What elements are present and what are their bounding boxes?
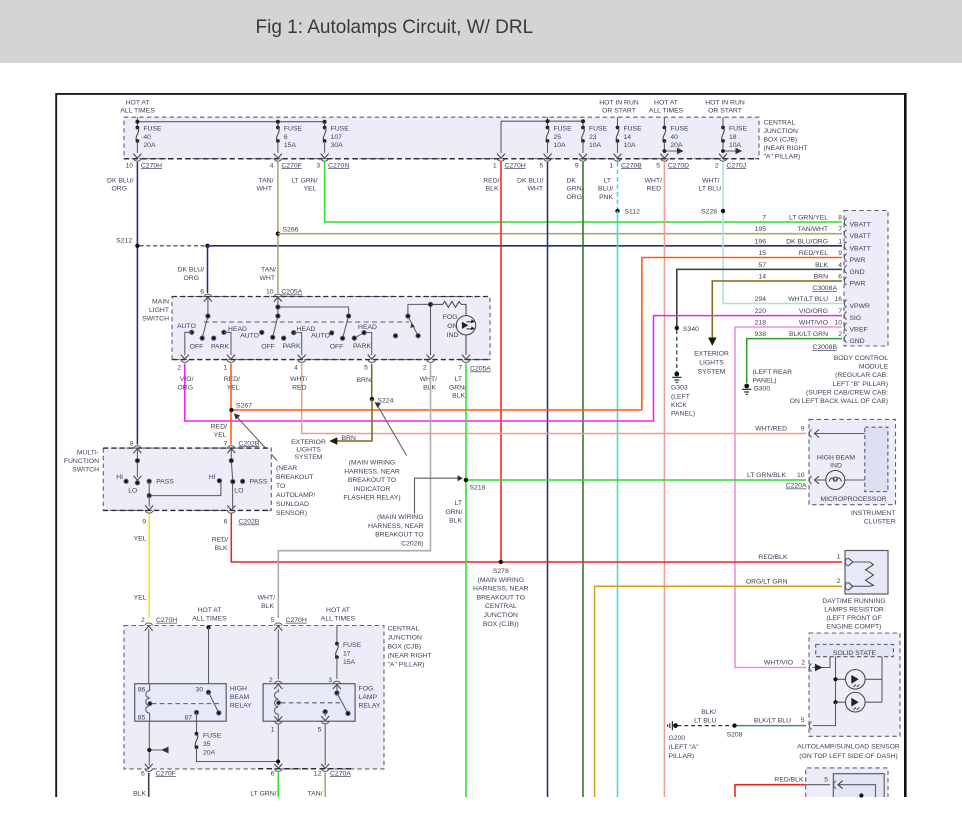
svg-text:FUSE: FUSE (143, 126, 162, 133)
label INSTRUMENT CLUSTER (851, 510, 896, 526)
svg-text:LO: LO (234, 487, 243, 494)
wire LT GRN/YEL C270N-3 to BCM VBATT 8 (325, 162, 842, 222)
connector pin 9 (575, 159, 587, 170)
svg-text:VBATT: VBATT (850, 222, 871, 229)
MLS pin 7 C205A (bottom) (458, 355, 491, 373)
pointer flasher relay note to S224 (375, 402, 407, 456)
relay K2 mechanical link (281, 702, 340, 704)
connector row C270 dark dashes (124, 158, 759, 160)
label LT BLU/PNK (598, 177, 614, 201)
svg-text:VREF: VREF (850, 327, 868, 334)
svg-text:G200: G200 (669, 735, 686, 742)
label RED/BLK (MFS pin6) (212, 537, 228, 552)
wire WHT/VIO BCM VREF 10 to sunload sensor pin 2 (735, 327, 842, 668)
svg-text:SUNLOAD: SUNLOAD (276, 501, 309, 508)
MFS pin 8 (top) (130, 440, 142, 453)
svg-text:7: 7 (838, 308, 842, 315)
svg-text:C270H: C270H (505, 162, 526, 169)
MLS section A contact labels (177, 323, 247, 351)
solid state inner box (816, 644, 894, 657)
svg-text:C270H: C270H (286, 617, 307, 624)
label DK BLU/ORG (107, 177, 134, 192)
svg-text:LT GRN/: LT GRN/ (250, 790, 276, 797)
fuse 107 30A (321, 126, 350, 159)
svg-text:VIO/: VIO/ (180, 376, 194, 383)
svg-text:BLK: BLK (486, 186, 499, 193)
svg-text:BLK/LT GRN: BLK/LT GRN (789, 331, 828, 338)
svg-text:10: 10 (797, 472, 805, 479)
fuse 25 10A (544, 126, 573, 159)
svg-text:6: 6 (271, 770, 275, 777)
svg-text:OFF: OFF (330, 344, 344, 351)
svg-text:10A: 10A (624, 142, 637, 149)
svg-text:FOG: FOG (359, 686, 374, 693)
svg-text:LT: LT (604, 177, 611, 184)
svg-text:PARK: PARK (282, 343, 300, 350)
wire internal pin2 to relay coil 86 (148, 630, 150, 684)
svg-text:30A: 30A (331, 142, 344, 149)
svg-text:C205A: C205A (281, 289, 302, 296)
arrow to exterior lights system (708, 338, 717, 346)
wire internal pin5 to fog relay pin 2 (277, 630, 279, 680)
svg-text:18: 18 (729, 134, 737, 141)
svg-text:WHT: WHT (528, 186, 543, 193)
splice S224 (370, 397, 394, 405)
microprocessor inner box (865, 427, 888, 492)
phototransistor D1 (833, 670, 882, 690)
svg-text:RED: RED (292, 384, 306, 391)
svg-text:ORG: ORG (178, 384, 193, 391)
relay K1 coil (146, 684, 152, 722)
CJB bottom pin 6 C270F (141, 764, 176, 777)
wire 87 to fuse 35 (196, 712, 198, 733)
relay K2 coil (275, 689, 281, 721)
svg-text:BLK/LT BLU: BLK/LT BLU (754, 718, 791, 725)
BCM pin cups (844, 218, 846, 342)
svg-text:CENTRAL: CENTRAL (764, 120, 796, 127)
MLS section B contact labels (240, 326, 315, 351)
svg-text:5: 5 (824, 777, 828, 784)
svg-text:2: 2 (837, 578, 841, 585)
sensor input arrow and riser (813, 657, 831, 672)
svg-text:PASS: PASS (250, 479, 268, 486)
wire RED/BLK C270H-1 down to S278 (500, 162, 502, 562)
multi-function switch box (64, 448, 271, 510)
sensor pin cup 5 (809, 722, 811, 730)
wire fuse14 feed stub (617, 117, 619, 127)
svg-text:ALL TIMES: ALL TIMES (192, 616, 227, 623)
bottom-right module box (clipped) (806, 768, 888, 797)
svg-text:PNK: PNK (599, 194, 613, 201)
svg-text:HOT AT: HOT AT (654, 100, 678, 107)
wire TAN/WHT C270F-4 to S266 to MLS pin 10 (277, 162, 279, 293)
svg-text:PWR: PWR (850, 257, 866, 264)
fuse 18 10A with branch arrow (719, 126, 748, 159)
svg-text:YEL: YEL (214, 432, 227, 439)
svg-text:25: 25 (554, 134, 562, 141)
svg-text:1: 1 (493, 162, 497, 169)
svg-text:2: 2 (141, 617, 145, 624)
svg-text:JUNCTION: JUNCTION (764, 128, 798, 135)
svg-text:AUTOLAMP/: AUTOLAMP/ (276, 492, 315, 499)
svg-text:FUNCTION: FUNCTION (64, 458, 99, 465)
splice S340 (675, 326, 699, 333)
svg-text:20A: 20A (203, 750, 216, 757)
svg-text:WHT/: WHT/ (645, 177, 662, 184)
BCM pin names (850, 222, 871, 346)
wire YEL MFS pin9 to CJB C270H-2 (148, 514, 150, 618)
svg-text:HI: HI (116, 474, 123, 481)
label LT GRN/BLK 10 C220A (747, 472, 807, 490)
MLS pin 4 (bottom) (294, 355, 306, 372)
svg-text:RED/: RED/ (212, 537, 228, 544)
central junction box CJB (lower) (124, 626, 432, 769)
svg-text:FLASHER RELAY): FLASHER RELAY) (343, 495, 400, 502)
svg-text:FUSE: FUSE (343, 642, 362, 649)
label ORG/LT GRN 2 (746, 578, 841, 586)
svg-text:ALL TIMES: ALL TIMES (321, 616, 356, 623)
svg-text:FUSE: FUSE (589, 126, 608, 133)
label LT GRN/BLK (pin7) (449, 376, 466, 400)
svg-text:BOX (CJB): BOX (CJB) (388, 644, 422, 651)
svg-text:15A: 15A (284, 142, 297, 149)
photodiode bus left (835, 657, 837, 703)
label WHT/LT BLU (699, 177, 722, 192)
wire RED/YEL S267 branch to BCM riser (234, 409, 642, 411)
label LEFT REAR PANEL (753, 369, 793, 385)
svg-text:DK BLU/ORG: DK BLU/ORG (786, 238, 828, 245)
svg-text:S278: S278 (493, 568, 509, 575)
svg-text:HARNESS, NEAR: HARNESS, NEAR (344, 468, 400, 475)
svg-text:(MAIN WIRING: (MAIN WIRING (478, 577, 524, 584)
wire DK GRN/ORG C270B-9 down to bottom (582, 162, 584, 797)
svg-text:BLK: BLK (261, 603, 274, 610)
svg-text:5: 5 (656, 162, 660, 169)
label RED/YEL (pin1) (224, 376, 240, 391)
svg-text:MULTI-: MULTI- (77, 450, 99, 457)
label BLK/LT BLU (dashed segment) (694, 709, 717, 724)
svg-text:HOT IN RUN: HOT IN RUN (599, 100, 639, 107)
bus wire hot feed left (135, 117, 326, 127)
svg-text:S212: S212 (116, 238, 132, 245)
svg-text:HIGH BEAM: HIGH BEAM (817, 454, 855, 461)
svg-text:BREAKOUT TO: BREAKOUT TO (477, 594, 525, 601)
svg-text:2: 2 (838, 331, 842, 338)
svg-text:JUNCTION: JUNCTION (388, 635, 422, 642)
svg-text:5: 5 (364, 365, 368, 372)
splice S212 (116, 238, 139, 249)
svg-text:PILLAR): PILLAR) (669, 753, 695, 760)
svg-text:FUSE: FUSE (624, 126, 643, 133)
svg-text:2: 2 (715, 162, 719, 169)
svg-text:FUSE: FUSE (729, 126, 748, 133)
svg-text:HOT AT: HOT AT (126, 100, 150, 107)
MLS pin 2 (bottom) (177, 355, 189, 372)
svg-text:5: 5 (271, 617, 275, 624)
svg-text:2: 2 (801, 659, 805, 666)
MFS pin 9 (bottom) (142, 496, 153, 526)
MLS switch section B (260, 298, 349, 355)
svg-text:S267: S267 (236, 403, 252, 410)
svg-text:YEL: YEL (227, 384, 240, 391)
svg-text:7: 7 (838, 226, 842, 233)
wire DK BLU/ORG horizontal to BCM VBATT 1 (208, 245, 843, 247)
svg-text:PANEL): PANEL) (753, 378, 777, 385)
svg-text:LO: LO (128, 487, 137, 494)
svg-text:2: 2 (177, 365, 181, 372)
svg-text:BLK/: BLK/ (701, 709, 716, 716)
svg-text:C220A: C220A (786, 483, 807, 490)
svg-text:WHT/LT BLU: WHT/LT BLU (788, 296, 828, 303)
svg-text:ALL TIMES: ALL TIMES (649, 108, 684, 115)
MFS dimmer section 2 (217, 450, 244, 508)
svg-text:DK: DK (567, 177, 577, 184)
wire fuse18 feed stub (722, 117, 724, 127)
svg-text:C270J: C270J (727, 162, 747, 169)
wire WHT/LT BLU C270J-2 to S228 to BCM VPWR 16 (723, 162, 842, 304)
svg-text:HOT AT: HOT AT (198, 607, 222, 614)
connector pin 1 C270B (609, 159, 642, 170)
wire dashed splice link S212 (140, 245, 208, 247)
svg-text:ORG: ORG (112, 186, 127, 193)
svg-text:HI: HI (209, 474, 216, 481)
wire LT BLU/PNK C270B-1 dashed to S112 (617, 162, 619, 209)
svg-text:8: 8 (130, 440, 134, 447)
svg-text:Fig 1: Autolamps Circuit, W/ D: Fig 1: Autolamps Circuit, W/ DRL (256, 17, 534, 38)
svg-text:(NEAR RIGHT: (NEAR RIGHT (764, 145, 808, 152)
svg-text:6: 6 (838, 274, 842, 281)
label VIO/ORG (178, 376, 194, 391)
MLS switch section A (185, 298, 231, 355)
connector C202B dark edge (MFS top) (103, 447, 271, 449)
svg-text:ORG/LT GRN: ORG/LT GRN (746, 578, 788, 585)
svg-text:5: 5 (801, 717, 805, 724)
ground G200 (668, 721, 699, 760)
svg-text:"A" PILLAR): "A" PILLAR) (764, 154, 801, 161)
svg-text:6: 6 (141, 770, 145, 777)
svg-text:C270F: C270F (156, 770, 176, 777)
svg-text:16: 16 (834, 296, 842, 303)
CJB bottom pin 12 C270A (314, 769, 352, 777)
fuse 35 20A (195, 732, 279, 762)
CJB bottom pin 6 (271, 769, 283, 777)
splice S266 (276, 227, 299, 236)
relay K1 contact 30-87 (194, 690, 221, 715)
svg-text:1: 1 (609, 162, 613, 169)
splice S278 (493, 560, 509, 575)
svg-text:C270H: C270H (156, 617, 177, 624)
daytime running lamps resistor R (box) (845, 551, 888, 595)
wire DK BLU/WHT C270H-5 down to bottom (547, 162, 549, 797)
label AUTOLAMP/SUNLOAD SENSOR (797, 744, 900, 761)
svg-text:(LEFT: (LEFT (671, 394, 690, 401)
svg-text:SWITCH: SWITCH (142, 316, 169, 323)
svg-text:ALL TIMES: ALL TIMES (120, 108, 155, 115)
svg-text:(ON TOP LEFT SIDE OF DASH): (ON TOP LEFT SIDE OF DASH) (799, 753, 897, 760)
svg-text:"A" PILLAR): "A" PILLAR) (388, 662, 425, 669)
label HOT AT ALL TIMES (fuse 40b) (649, 100, 684, 115)
svg-text:LT GRN/YEL: LT GRN/YEL (789, 215, 828, 222)
svg-text:BLK: BLK (215, 545, 228, 552)
svg-text:85: 85 (138, 715, 146, 722)
svg-text:DK BLU/: DK BLU/ (107, 177, 134, 184)
svg-text:HIGH: HIGH (230, 686, 247, 693)
svg-text:10A: 10A (554, 142, 567, 149)
svg-text:86: 86 (138, 686, 146, 693)
wire BRN S224 down and left to arrow (337, 399, 373, 441)
svg-text:3: 3 (328, 677, 332, 684)
svg-text:FOG: FOG (443, 314, 458, 321)
wire TAN below C270A-12 (308, 773, 326, 798)
svg-text:TAN/: TAN/ (308, 790, 323, 797)
MLS pin 10 C205A (top) (266, 289, 303, 302)
svg-text:1: 1 (838, 238, 842, 245)
phototransistor D2 (833, 692, 882, 712)
wire WHT/RED MLS pin4 to cluster pin 9 (302, 364, 806, 434)
connector pin 5 (539, 159, 551, 170)
fog on ind resistor (431, 302, 467, 316)
svg-text:FUSE: FUSE (203, 733, 222, 740)
wire BLK/LT GRN BCM GND 2 to G300 (747, 339, 842, 383)
splice S218 (464, 478, 486, 492)
svg-text:BLK: BLK (449, 518, 462, 525)
fuse 6 15A (274, 126, 303, 159)
svg-text:RED/: RED/ (224, 376, 240, 383)
sensor pin cup 2 (809, 664, 811, 672)
svg-text:LIGHT: LIGHT (149, 307, 169, 314)
svg-text:(NEAR RIGHT: (NEAR RIGHT (388, 653, 432, 660)
label RED/YEL (above MFS pin7) (211, 424, 227, 439)
fuse 17 15A (335, 626, 362, 680)
fuse 14 10A (614, 126, 643, 159)
svg-text:SOLID STATE: SOLID STATE (833, 650, 877, 657)
label DK GRN/ORG (567, 177, 584, 201)
svg-text:GRN/: GRN/ (567, 186, 584, 193)
svg-text:LT BLU: LT BLU (699, 186, 722, 193)
svg-text:6: 6 (224, 519, 228, 526)
svg-text:PASS: PASS (156, 479, 174, 486)
svg-text:C3008A: C3008A (812, 285, 837, 292)
MFS dimmer section 1 (124, 450, 151, 485)
relay K2 contact 3-5 (321, 684, 350, 721)
label HOT IN RUN OR START (fuse 14) (599, 100, 639, 115)
connector pin 5 C270D (656, 159, 689, 170)
svg-text:107: 107 (331, 134, 343, 141)
svg-text:EXTERIOR: EXTERIOR (291, 439, 326, 446)
svg-text:OFF: OFF (261, 344, 275, 351)
label WHT/BLK (pin2 fog) (420, 376, 437, 391)
svg-text:FUSE: FUSE (554, 126, 573, 133)
wire RED/YEL MLS pin1 to S267 to MFS pin7 (230, 364, 232, 445)
svg-text:BEAM: BEAM (230, 694, 250, 701)
CJB pin 5 C270H (271, 617, 307, 631)
wire BLK/LT BLU S208 to sensor (737, 725, 806, 727)
svg-text:BLK: BLK (452, 393, 465, 400)
svg-text:PWR: PWR (850, 281, 866, 288)
svg-text:2: 2 (423, 365, 427, 372)
wire LT BLU/PNK solid down to bottom (617, 211, 619, 797)
wire pin1 C270H feed arrow (497, 154, 505, 159)
svg-text:CLUSTER: CLUSTER (864, 519, 896, 526)
svg-text:INSTRUMENT: INSTRUMENT (851, 510, 896, 517)
wire BLK below C270F-6 (133, 773, 149, 798)
svg-text:C205A: C205A (470, 366, 491, 373)
wire RED/BLK MFS pin6 to S278 to DRL resistor pin 1 (231, 513, 842, 562)
svg-text:4: 4 (270, 162, 274, 169)
svg-text:WHT/: WHT/ (258, 595, 275, 602)
splice S267 (229, 403, 252, 413)
svg-text:S266: S266 (283, 227, 299, 234)
fuse 40 20A (left) (133, 126, 162, 159)
svg-text:WHT/VIO: WHT/VIO (764, 659, 793, 666)
fuse 40 20A (right) with branch arrow (660, 126, 689, 159)
ground G303 (671, 372, 695, 418)
svg-text:OFF: OFF (190, 344, 204, 351)
fog lamp relay K2 (263, 677, 355, 721)
svg-text:C202B: C202B (239, 440, 260, 447)
svg-text:(LEFT "A": (LEFT "A" (669, 744, 700, 751)
label LT GRN/BLK (below S218) (446, 500, 463, 525)
wire 85 to C270F-6 with stub arrow (147, 721, 168, 765)
svg-text:VPWR: VPWR (850, 303, 870, 310)
svg-text:20A: 20A (670, 142, 683, 149)
label WHT/RED (pin4) (290, 376, 307, 391)
svg-text:87: 87 (184, 715, 192, 722)
svg-text:294: 294 (755, 296, 767, 303)
splice S208 (727, 723, 743, 738)
svg-text:C270F: C270F (281, 162, 301, 169)
svg-text:LEFT "B" PILLAR): LEFT "B" PILLAR) (833, 381, 888, 388)
svg-text:KICK: KICK (671, 402, 687, 409)
connector pin 4 C270F (270, 159, 302, 170)
wire WHT/RED C270D-5 down to bottom (663, 162, 665, 797)
svg-text:10: 10 (266, 289, 274, 296)
svg-text:DK BLU/: DK BLU/ (178, 267, 205, 274)
svg-text:RED/YEL: RED/YEL (799, 250, 828, 257)
svg-text:SENSOR): SENSOR) (276, 510, 307, 517)
svg-text:9: 9 (838, 250, 842, 257)
wire BRN BCM PWR 6 to exterior lights arrow (712, 281, 842, 339)
svg-text:OR START: OR START (602, 108, 636, 115)
svg-text:10: 10 (125, 162, 133, 169)
wire BLK BCM GND 4 to S340 (677, 269, 842, 327)
MLS pin 5 (bottom) (364, 355, 376, 372)
svg-text:C3008B: C3008B (812, 344, 837, 351)
svg-text:195: 195 (755, 226, 767, 233)
cluster pin cup 9 (809, 430, 811, 438)
svg-text:BRN: BRN (814, 274, 828, 281)
svg-text:WHT/VIO: WHT/VIO (799, 320, 828, 327)
svg-text:C270A: C270A (330, 770, 351, 777)
svg-text:C270D: C270D (668, 162, 689, 169)
relay K1/K2 labels (230, 686, 381, 710)
label DK BLU/ORG (above MLS) (178, 267, 205, 282)
sensor pin 5 internal wire (813, 702, 836, 725)
wire LT GRN below pin 6 (250, 773, 278, 798)
wire DK BLU/ORG down to MLS pin 6 (207, 246, 209, 293)
svg-text:SYSTEM: SYSTEM (698, 369, 726, 376)
svg-text:WHT/: WHT/ (420, 376, 437, 383)
svg-text:10: 10 (834, 320, 842, 327)
svg-text:AUTO: AUTO (240, 333, 259, 340)
svg-text:BLK: BLK (133, 790, 146, 797)
svg-text:LAMPS RESISTOR: LAMPS RESISTOR (824, 607, 884, 614)
svg-text:HOT IN RUN: HOT IN RUN (705, 100, 745, 107)
svg-text:VBATT: VBATT (850, 245, 871, 252)
label HOT AT ALL TIMES (fuse 40a) (120, 100, 155, 115)
label DAYTIME RUNNING LAMPS RESISTOR (822, 598, 885, 631)
label WHT/RED 9 (755, 426, 804, 433)
